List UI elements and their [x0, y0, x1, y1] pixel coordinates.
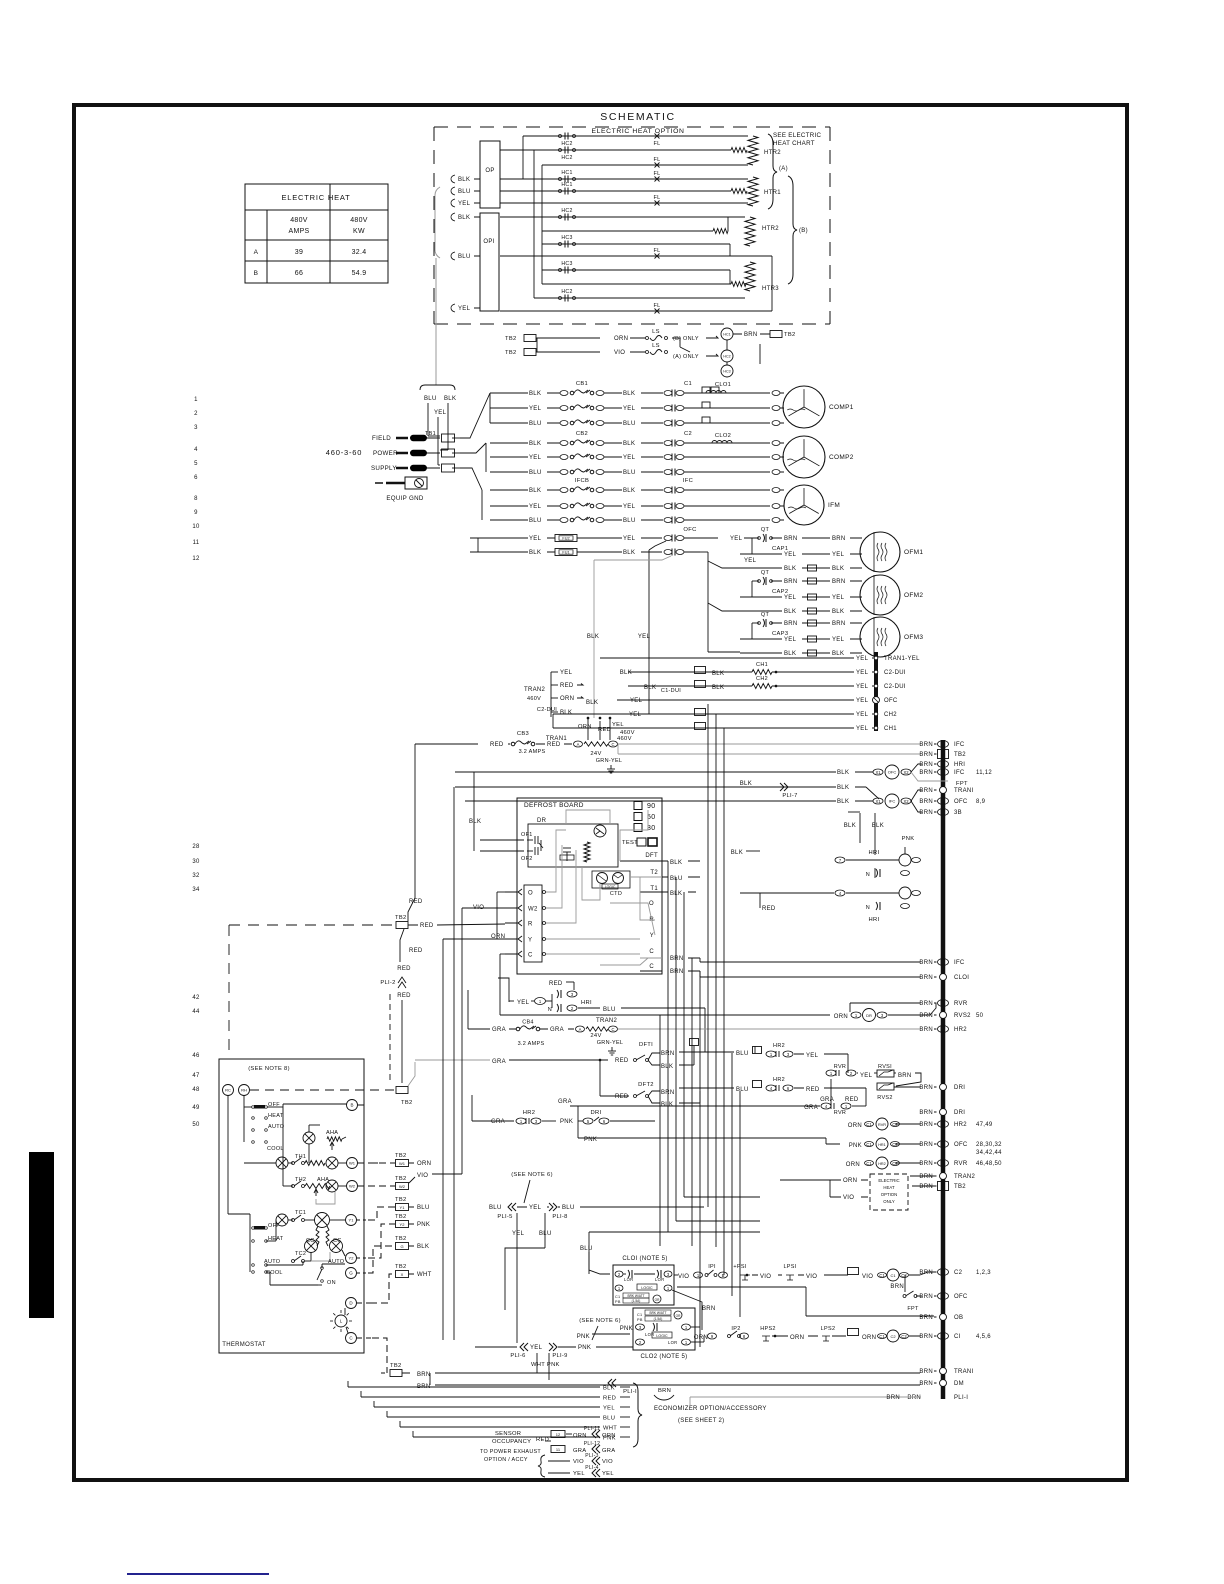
- svg-text:QT: QT: [761, 612, 770, 618]
- svg-text:ECONOMIZER OPTION/ACCESSORY: ECONOMIZER OPTION/ACCESSORY: [654, 1406, 767, 1412]
- svg-text:BRN: BRN: [670, 956, 684, 962]
- svg-text:IFC: IFC: [954, 742, 965, 748]
- svg-text:ORN: ORN: [843, 1178, 857, 1184]
- svg-text:IFC: IFC: [954, 770, 965, 776]
- svg-text:BRN: BRN: [784, 579, 798, 585]
- svg-text:3.2 AMPS: 3.2 AMPS: [519, 749, 546, 755]
- svg-text:VIO: VIO: [602, 1459, 613, 1465]
- svg-text:BLU: BLU: [529, 518, 542, 524]
- svg-text:C2-DUI: C2-DUI: [884, 684, 906, 690]
- svg-text:C2: C2: [901, 1273, 907, 1278]
- svg-text:BRN: BRN: [919, 1174, 933, 1180]
- svg-text:ORN: ORN: [694, 1335, 708, 1341]
- svg-text:FU1: FU1: [562, 551, 569, 555]
- svg-text:TRAN1-YEL: TRAN1-YEL: [884, 656, 920, 662]
- svg-text:BLK: BLK: [623, 488, 635, 494]
- svg-text:ELECTRIC HEAT OPTION: ELECTRIC HEAT OPTION: [592, 128, 685, 135]
- svg-text:BLU: BLU: [458, 189, 471, 195]
- svg-text:YEL: YEL: [784, 637, 797, 643]
- svg-text:ELECTRIC HEAT: ELECTRIC HEAT: [281, 193, 350, 202]
- svg-text:(SEE NOTE 6): (SEE NOTE 6): [511, 1172, 553, 1178]
- svg-text:FU2: FU2: [562, 537, 569, 541]
- svg-text:PLI-12: PLI-12: [584, 1441, 601, 1447]
- svg-text:SCHEMATIC: SCHEMATIC: [600, 111, 675, 123]
- svg-text:BLK: BLK: [417, 1244, 429, 1250]
- svg-text:C1: C1: [684, 381, 692, 387]
- svg-text:TRAN2: TRAN2: [596, 1018, 618, 1024]
- svg-text:WHT PNK: WHT PNK: [531, 1362, 560, 1368]
- svg-text:HC3: HC3: [561, 261, 572, 267]
- svg-text:BRN: BRN: [832, 579, 846, 585]
- svg-text:R: R: [528, 922, 533, 928]
- svg-text:OF2: OF2: [521, 856, 533, 862]
- svg-text:HRI: HRI: [869, 850, 880, 856]
- svg-text:(SEE NOTE 6): (SEE NOTE 6): [579, 1318, 621, 1324]
- svg-text:FL: FL: [653, 141, 660, 147]
- svg-text:BRN: BRN: [919, 1184, 933, 1190]
- svg-text:C2-DUI: C2-DUI: [884, 670, 906, 676]
- svg-text:BLU: BLU: [736, 1051, 749, 1057]
- svg-text:PLI-6: PLI-6: [510, 1353, 525, 1359]
- svg-text:DFTI: DFTI: [639, 1042, 653, 1048]
- svg-text:Y2: Y2: [400, 1222, 406, 1227]
- svg-text:32: 32: [192, 873, 200, 879]
- svg-text:C2: C2: [901, 1334, 907, 1339]
- svg-text:IFC: IFC: [683, 478, 693, 484]
- svg-text:BRK W/ATT: BRK W/ATT: [649, 1311, 666, 1315]
- svg-text:IFCB: IFCB: [575, 478, 589, 484]
- svg-text:BLU: BLU: [529, 470, 542, 476]
- svg-text:YEL: YEL: [529, 455, 542, 461]
- svg-text:X2: X2: [903, 799, 909, 804]
- svg-text:50: 50: [192, 1122, 200, 1128]
- svg-text:ORN: ORN: [862, 1335, 876, 1341]
- svg-text:30: 30: [192, 859, 200, 865]
- svg-text:C1: C1: [866, 1122, 872, 1127]
- svg-text:ORN: ORN: [614, 336, 628, 342]
- svg-text:TO POWER EXHAUST: TO POWER EXHAUST: [480, 1449, 541, 1455]
- svg-text:PNK: PNK: [577, 1334, 590, 1340]
- svg-text:OFC: OFC: [954, 1294, 968, 1300]
- svg-text:RED: RED: [397, 966, 411, 972]
- svg-text:X: X: [401, 1272, 404, 1277]
- svg-text:W2: W2: [399, 1184, 406, 1189]
- svg-text:YEL: YEL: [623, 455, 636, 461]
- svg-text:YEL: YEL: [856, 670, 869, 676]
- svg-text:BLK: BLK: [586, 700, 598, 706]
- svg-text:IPI: IPI: [708, 1264, 716, 1270]
- svg-text:BLU: BLU: [603, 1416, 615, 1422]
- svg-text:24V: 24V: [590, 1033, 601, 1039]
- svg-text:CH1: CH1: [756, 662, 768, 668]
- svg-text:GRA: GRA: [491, 1119, 505, 1125]
- svg-text:BRN: BRN: [898, 1073, 912, 1079]
- svg-text:YEL: YEL: [529, 1205, 542, 1211]
- svg-text:TB2: TB2: [395, 1236, 407, 1242]
- svg-text:FL: FL: [653, 248, 660, 254]
- svg-text:BRN: BRN: [919, 752, 933, 758]
- svg-text:C1-DUI: C1-DUI: [661, 688, 681, 694]
- svg-text:FL: FL: [653, 195, 660, 201]
- svg-text:24V: 24V: [590, 751, 601, 757]
- svg-text:Y2: Y2: [349, 1255, 355, 1260]
- svg-text:RED: RED: [409, 899, 423, 905]
- svg-text:IFC: IFC: [889, 798, 896, 803]
- svg-text:28: 28: [192, 844, 200, 850]
- svg-text:47,49: 47,49: [976, 1122, 993, 1128]
- svg-text:(B) ONLY: (B) ONLY: [673, 336, 699, 342]
- svg-text:BRN: BRN: [907, 1395, 921, 1401]
- svg-text:HR2: HR2: [954, 1027, 967, 1033]
- svg-text:YEL: YEL: [784, 595, 797, 601]
- svg-text:VIO: VIO: [417, 1173, 428, 1179]
- svg-text:ORN: ORN: [602, 1433, 616, 1439]
- svg-text:BRN: BRN: [919, 770, 933, 776]
- svg-text:BLK: BLK: [661, 1102, 673, 1108]
- svg-text:LOR: LOR: [668, 1340, 678, 1345]
- svg-text:BRN: BRN: [919, 1142, 933, 1148]
- svg-text:SENSOR: SENSOR: [495, 1431, 521, 1437]
- svg-text:YEL: YEL: [630, 698, 643, 704]
- svg-text:BLK: BLK: [837, 799, 849, 805]
- svg-text:CH2: CH2: [884, 712, 897, 718]
- svg-text:GRA: GRA: [492, 1059, 506, 1065]
- svg-text:TB2: TB2: [505, 350, 517, 356]
- svg-text:LOGIC: LOGIC: [605, 885, 616, 889]
- svg-text:YEL: YEL: [573, 1471, 585, 1477]
- svg-text:BRN: BRN: [919, 810, 933, 816]
- svg-text:CTD: CTD: [610, 891, 622, 897]
- svg-text:C: C: [528, 953, 533, 959]
- svg-text:AUTO: AUTO: [264, 1259, 281, 1265]
- svg-text:42: 42: [192, 995, 200, 1001]
- svg-text:TB2: TB2: [505, 336, 517, 342]
- svg-text:BLU: BLU: [623, 421, 636, 427]
- svg-text:RVR: RVR: [954, 1001, 968, 1007]
- svg-text:AUTO: AUTO: [268, 1124, 285, 1130]
- svg-text:RED: RED: [615, 1094, 629, 1100]
- svg-text:G: G: [400, 1244, 403, 1249]
- svg-text:YEL: YEL: [638, 634, 651, 640]
- svg-text:RVR: RVR: [834, 1064, 846, 1070]
- svg-text:SEE ELECTRIC: SEE ELECTRIC: [773, 132, 822, 139]
- svg-text:HEAT: HEAT: [883, 1185, 895, 1190]
- svg-text:BRN: BRN: [744, 332, 758, 338]
- svg-text:BRN: BRN: [919, 1369, 933, 1375]
- svg-text:OP: OP: [485, 168, 494, 174]
- svg-text:OFC: OFC: [683, 527, 696, 533]
- svg-text:RVS2: RVS2: [954, 1013, 971, 1019]
- svg-text:BLU: BLU: [424, 396, 437, 402]
- svg-text:GRA: GRA: [550, 1027, 564, 1033]
- svg-text:G: G: [349, 1271, 353, 1276]
- svg-text:BLK: BLK: [529, 488, 541, 494]
- svg-text:TH1: TH1: [295, 1154, 306, 1160]
- svg-text:BRN: BRN: [784, 536, 798, 542]
- svg-text:(A): (A): [779, 166, 788, 172]
- svg-text:OFM2: OFM2: [904, 592, 923, 599]
- svg-text:A: A: [577, 742, 580, 747]
- svg-text:BRN: BRN: [919, 1294, 933, 1300]
- svg-text:BLK: BLK: [844, 823, 856, 829]
- svg-text:BRN: BRN: [886, 1395, 900, 1401]
- svg-text:N: N: [866, 872, 870, 878]
- svg-text:PLI-9: PLI-9: [552, 1353, 567, 1359]
- svg-text:HC2: HC2: [561, 208, 572, 214]
- svg-text:OPTION: OPTION: [881, 1192, 897, 1197]
- svg-text:ORN: ORN: [573, 1433, 587, 1439]
- svg-text:IFC: IFC: [954, 960, 965, 966]
- svg-text:BLU: BLU: [458, 254, 471, 260]
- svg-text:IP2: IP2: [731, 1326, 740, 1332]
- svg-text:BRN: BRN: [919, 1027, 933, 1033]
- svg-text:YEL: YEL: [603, 1406, 615, 1412]
- svg-text:BLU: BLU: [417, 1205, 430, 1211]
- svg-text:BLU: BLU: [623, 470, 636, 476]
- svg-text:RVS2: RVS2: [877, 1095, 892, 1101]
- svg-text:BLK: BLK: [832, 609, 844, 615]
- svg-text:PNK: PNK: [417, 1222, 430, 1228]
- svg-text:RED: RED: [549, 981, 563, 987]
- svg-text:YEL: YEL: [529, 536, 542, 542]
- svg-text:5: 5: [194, 461, 198, 467]
- svg-text:TB2: TB2: [390, 1363, 402, 1369]
- svg-text:BLK: BLK: [712, 685, 724, 691]
- svg-text:YEL: YEL: [856, 726, 869, 732]
- svg-text:BRN: BRN: [919, 762, 933, 768]
- svg-text:Y: Y: [650, 933, 654, 939]
- svg-text:COOL: COOL: [266, 1270, 283, 1276]
- svg-text:BLU: BLU: [736, 1087, 749, 1093]
- svg-text:PNK: PNK: [560, 1119, 573, 1125]
- svg-text:RED: RED: [409, 948, 423, 954]
- svg-text:C1: C1: [866, 1142, 872, 1147]
- svg-text:4,5,6: 4,5,6: [976, 1334, 991, 1340]
- svg-text:OCCUPANCY: OCCUPANCY: [492, 1439, 531, 1445]
- svg-text:OFC: OFC: [888, 769, 897, 774]
- svg-text:YEL: YEL: [623, 406, 636, 412]
- svg-text:YEL: YEL: [458, 306, 471, 312]
- svg-text:VIO: VIO: [573, 1459, 584, 1465]
- svg-text:YEL: YEL: [612, 722, 624, 728]
- svg-text:YEL: YEL: [856, 712, 869, 718]
- svg-text:BRN: BRN: [890, 1284, 904, 1290]
- svg-text:1: 1: [194, 397, 198, 403]
- svg-text:LOR: LOR: [655, 1277, 665, 1282]
- svg-text:C1: C1: [879, 1273, 885, 1278]
- svg-text:BRN: BRN: [919, 788, 933, 794]
- svg-text:BRN: BRN: [919, 1122, 933, 1128]
- svg-text:C2: C2: [954, 1270, 963, 1276]
- svg-text:460-3-60: 460-3-60: [326, 448, 362, 457]
- svg-text:HC3: HC3: [561, 235, 572, 241]
- svg-text:WHT: WHT: [603, 1426, 617, 1432]
- svg-text:GRA: GRA: [804, 1105, 818, 1111]
- svg-text:48: 48: [192, 1087, 200, 1093]
- svg-text:QT: QT: [761, 570, 770, 576]
- svg-text:C2: C2: [684, 431, 692, 437]
- svg-text:TB2: TB2: [395, 1176, 407, 1182]
- svg-text:BRN: BRN: [919, 1334, 933, 1340]
- svg-text:(SEE NOTE 8): (SEE NOTE 8): [248, 1066, 290, 1072]
- svg-text:YEL: YEL: [832, 552, 845, 558]
- svg-text:32.4: 32.4: [352, 249, 367, 256]
- svg-text:BRN: BRN: [919, 1161, 933, 1167]
- svg-text:W2: W2: [528, 907, 538, 913]
- svg-text:480V: 480V: [290, 217, 308, 224]
- svg-text:BRN: BRN: [702, 1306, 716, 1312]
- svg-text:ORN: ORN: [848, 1123, 862, 1129]
- svg-text:Y: Y: [528, 938, 532, 944]
- svg-text:ORN: ORN: [790, 1335, 804, 1341]
- svg-text:BRK W/ATT: BRK W/ATT: [627, 1294, 644, 1298]
- svg-text:BRN: BRN: [919, 960, 933, 966]
- svg-text:DEFROST BOARD: DEFROST BOARD: [524, 802, 584, 809]
- svg-text:TB2: TB2: [784, 332, 796, 338]
- svg-text:PB: PB: [615, 1300, 621, 1304]
- svg-text:11: 11: [193, 540, 200, 546]
- svg-text:RED: RED: [397, 993, 411, 999]
- svg-text:YEL: YEL: [629, 712, 642, 718]
- svg-text:VIO: VIO: [614, 350, 625, 356]
- svg-text:RED: RED: [547, 742, 561, 748]
- svg-text:OFM3: OFM3: [904, 634, 923, 641]
- svg-text:FL: FL: [653, 157, 660, 163]
- svg-text:ORN: ORN: [578, 724, 592, 730]
- svg-text:HRI: HRI: [869, 917, 880, 923]
- svg-text:C: C: [611, 742, 614, 747]
- svg-text:TH2: TH2: [295, 1177, 306, 1183]
- svg-text:BRN: BRN: [919, 742, 933, 748]
- svg-text:C1: C1: [637, 1313, 642, 1317]
- svg-text:34: 34: [192, 887, 200, 893]
- svg-text:BLK: BLK: [458, 215, 470, 221]
- svg-text:4: 4: [194, 447, 198, 453]
- svg-text:SUPPLY: SUPPLY: [371, 465, 397, 472]
- svg-text:39: 39: [295, 249, 303, 256]
- svg-text:1,2,3: 1,2,3: [976, 1270, 991, 1276]
- svg-text:44: 44: [192, 1009, 200, 1015]
- svg-text:B: B: [254, 270, 259, 277]
- svg-text:ORN: ORN: [417, 1161, 431, 1167]
- svg-text:BLK: BLK: [670, 860, 682, 866]
- svg-text:46: 46: [192, 1053, 200, 1059]
- svg-text:YEL: YEL: [529, 504, 542, 510]
- svg-text:AHA: AHA: [326, 1130, 338, 1136]
- svg-text:FIELD: FIELD: [372, 435, 391, 442]
- svg-text:(A) ONLY: (A) ONLY: [673, 354, 699, 360]
- svg-text:LOGIC: LOGIC: [656, 1334, 668, 1338]
- svg-text:BLU: BLU: [529, 421, 542, 427]
- svg-text:54.9: 54.9: [352, 270, 367, 277]
- svg-text:PLI-I: PLI-I: [954, 1395, 968, 1401]
- svg-text:YEL: YEL: [560, 670, 573, 676]
- svg-text:OFF: OFF: [268, 1223, 280, 1229]
- svg-text:N: N: [548, 1007, 552, 1013]
- svg-text:YEL: YEL: [529, 406, 542, 412]
- svg-text:BLU: BLU: [623, 518, 636, 524]
- svg-text:OR: OR: [676, 1314, 681, 1318]
- svg-text:TRAN2: TRAN2: [954, 1174, 976, 1180]
- svg-text:RED: RED: [603, 1396, 616, 1402]
- svg-text:RED: RED: [615, 1058, 629, 1064]
- svg-text:CLO2 (NOTE 5): CLO2 (NOTE 5): [641, 1354, 688, 1360]
- svg-text:BLU: BLU: [489, 1205, 502, 1211]
- svg-text:47: 47: [192, 1073, 200, 1079]
- svg-text:RED: RED: [806, 1087, 820, 1093]
- svg-text:LOR: LOR: [645, 1332, 655, 1337]
- svg-text:A: A: [579, 1027, 582, 1032]
- svg-text:PB: PB: [637, 1318, 643, 1322]
- svg-text:X1: X1: [875, 770, 881, 775]
- svg-text:YEL: YEL: [806, 1053, 819, 1059]
- svg-text:BLK: BLK: [784, 566, 796, 572]
- svg-text:49: 49: [192, 1105, 200, 1111]
- svg-text:GRA: GRA: [492, 1027, 506, 1033]
- svg-text:TRAN1: TRAN1: [546, 736, 568, 742]
- svg-text:BLK: BLK: [832, 566, 844, 572]
- svg-text:OPI: OPI: [483, 239, 494, 245]
- svg-text:8: 8: [194, 496, 198, 502]
- svg-text:POWER: POWER: [373, 450, 398, 457]
- svg-text:ORN: ORN: [560, 696, 574, 702]
- svg-text:BRN: BRN: [919, 975, 933, 981]
- svg-text:W1: W1: [349, 1160, 356, 1165]
- svg-text:N: N: [866, 905, 870, 911]
- svg-text:PNK: PNK: [620, 1326, 633, 1332]
- svg-text:BLK: BLK: [560, 710, 572, 716]
- svg-text:CLOI: CLOI: [954, 975, 969, 981]
- svg-text:CLOI (NOTE 5): CLOI (NOTE 5): [622, 1256, 667, 1262]
- svg-text:12: 12: [556, 1432, 561, 1437]
- svg-text:HPS2: HPS2: [760, 1326, 776, 1332]
- svg-text:90: 90: [647, 803, 655, 810]
- svg-text:GRA: GRA: [602, 1448, 615, 1454]
- svg-text:12: 12: [192, 556, 200, 562]
- svg-text:DRI: DRI: [954, 1085, 965, 1091]
- svg-text:HC1: HC1: [561, 182, 572, 188]
- svg-text:BRN: BRN: [919, 1110, 933, 1116]
- svg-text:28,30,32: 28,30,32: [976, 1142, 1002, 1148]
- svg-text:(1.5A): (1.5A): [632, 1299, 641, 1303]
- svg-text:C: C: [649, 964, 654, 970]
- svg-text:BLK: BLK: [623, 391, 635, 397]
- svg-text:HR2: HR2: [878, 1162, 886, 1166]
- svg-text:BLK: BLK: [661, 1064, 673, 1070]
- svg-text:46,48,50: 46,48,50: [976, 1161, 1002, 1167]
- svg-text:PLI-5: PLI-5: [497, 1214, 512, 1220]
- svg-text:3: 3: [194, 425, 198, 431]
- svg-text:11,12: 11,12: [976, 770, 992, 776]
- svg-text:LS: LS: [652, 329, 660, 335]
- svg-text:66: 66: [295, 270, 303, 277]
- svg-text:460V: 460V: [527, 696, 541, 702]
- svg-text:FPT: FPT: [907, 1306, 919, 1312]
- svg-text:OFC: OFC: [954, 1142, 968, 1148]
- svg-text:YEL: YEL: [458, 201, 471, 207]
- svg-text:HR2: HR2: [954, 1122, 967, 1128]
- svg-text:BLK: BLK: [784, 609, 796, 615]
- svg-text:9: 9: [194, 510, 198, 516]
- svg-text:BLK: BLK: [623, 441, 635, 447]
- svg-text:WHT: WHT: [417, 1272, 432, 1278]
- svg-text:HR2: HR2: [773, 1043, 785, 1049]
- svg-text:THERMOSTAT: THERMOSTAT: [222, 1342, 265, 1348]
- svg-text:C: C: [611, 1027, 614, 1032]
- svg-text:TB2: TB2: [395, 915, 407, 921]
- svg-text:TB2: TB2: [954, 752, 966, 758]
- svg-text:RVR: RVR: [878, 1123, 886, 1127]
